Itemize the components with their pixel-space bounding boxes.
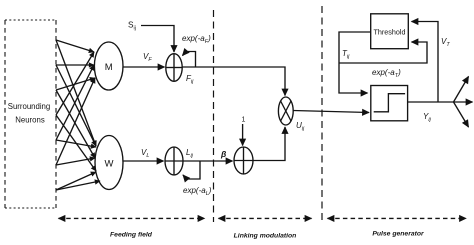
svg-text:Feeding field: Feeding field	[110, 232, 153, 239]
feedback loop exp(-aL)	[183, 161, 200, 179]
step symbol	[374, 94, 405, 112]
wire O2-M2	[56, 64, 94, 66]
summer L	[165, 147, 183, 175]
label Surrounding Neurons	[8, 102, 50, 125]
svg-text:exp(-aF): exp(-aF)	[182, 34, 211, 45]
input 1 wire	[242, 124, 244, 146]
wire O7-W3	[56, 172, 96, 190]
svg-text:Threshold: Threshold	[374, 28, 406, 37]
wire O1-M1	[56, 40, 94, 52]
step function box	[371, 86, 408, 121]
neuron M	[94, 42, 123, 90]
pulse generator span arrow	[328, 217, 467, 219]
wire O4-M1	[56, 52, 94, 115]
linking modulation span arrow	[219, 217, 312, 219]
multiplier U	[278, 97, 293, 125]
svg-text:M: M	[105, 62, 113, 73]
wire T threshold to step box	[339, 32, 371, 93]
wire O3-W2	[56, 90, 95, 158]
wire L to linking summer	[183, 160, 233, 162]
svg-text:Linking modulation: Linking modulation	[234, 233, 297, 240]
svg-text:Uij: Uij	[296, 121, 305, 132]
svg-text:Surrounding: Surrounding	[8, 102, 50, 111]
svg-text:VL: VL	[141, 148, 149, 159]
svg-text:Fij: Fij	[186, 74, 194, 85]
svg-text:exp(-aT): exp(-aT)	[372, 68, 401, 79]
separator linking/pulse	[321, 6, 323, 222]
svg-text:Lij: Lij	[186, 148, 194, 159]
wire O1-W1	[56, 40, 96, 146]
svg-text:W: W	[105, 159, 114, 170]
wire O2-W1	[56, 65, 96, 146]
wire O7-W4	[56, 181, 100, 190]
separator feeding/linking	[213, 10, 215, 222]
wire linking to multiplier	[253, 127, 285, 161]
wire O6-M3	[56, 78, 95, 165]
svg-text:VF: VF	[143, 52, 152, 63]
surrounding neurons box	[5, 19, 56, 21]
svg-text:Tij: Tij	[342, 49, 350, 60]
feeding field span arrow	[59, 217, 205, 219]
wire VL	[123, 160, 164, 162]
svg-text:Sij: Sij	[128, 21, 136, 32]
threshold box	[371, 14, 409, 49]
feedback loop exp(-aF)	[183, 52, 196, 68]
neuron W	[95, 136, 123, 190]
wire U to step box	[293, 111, 369, 113]
svg-text:exp(-aL): exp(-aL)	[183, 186, 212, 197]
wire VT feedback	[412, 22, 439, 103]
summer F	[166, 54, 182, 82]
output wire Y	[408, 101, 454, 103]
wire F to multiplier	[182, 67, 285, 96]
wire O6-W2b	[56, 158, 95, 165]
svg-text:VT: VT	[441, 37, 450, 48]
output fan arrow up	[454, 77, 469, 103]
wire O3-M3	[56, 78, 95, 90]
wire VF	[123, 66, 165, 68]
output fan arrow mid	[454, 101, 473, 103]
output fan arrow down	[454, 102, 469, 127]
svg-text:β: β	[220, 149, 226, 159]
svg-text:Pulse generator: Pulse generator	[372, 231, 424, 238]
input Sij wire	[141, 26, 174, 53]
linking summer	[234, 147, 253, 174]
svg-text:Neurons: Neurons	[15, 116, 45, 125]
svg-text:Yij: Yij	[423, 112, 432, 123]
wire O4-W3	[56, 115, 96, 171]
svg-text:1: 1	[242, 117, 246, 124]
wire O5-W1b	[56, 140, 96, 147]
wire O5-M2	[56, 65, 94, 140]
feedback loop exp(-aT)	[339, 42, 427, 63]
